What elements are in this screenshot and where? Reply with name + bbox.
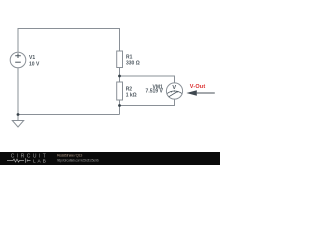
wire left vertical lower	[17, 68, 19, 115]
junction node at ground	[17, 113, 20, 116]
wire R1 to node A	[119, 68, 121, 83]
wire top horizontal	[18, 28, 120, 30]
node A (R1/R2 junction)	[118, 75, 121, 78]
svg-text:V-Out: V-Out	[190, 84, 206, 90]
svg-text:http://circuitlab.com/c5b2b25e: http://circuitlab.com/c5b2b25e96	[57, 158, 99, 162]
svg-text:10 V: 10 V	[29, 62, 40, 68]
wire node A to voltmeter top	[120, 76, 175, 83]
svg-text:LAB: LAB	[33, 158, 46, 164]
CircuitLab logo	[7, 153, 46, 164]
wire left vertical upper	[17, 28, 19, 52]
svg-text:1 kΩ: 1 kΩ	[126, 93, 137, 99]
wire node B to voltmeter bottom	[120, 99, 175, 105]
watermark bar	[0, 152, 220, 165]
wire R2 to node B	[119, 100, 121, 115]
svg-text:ResistShare / Q13: ResistShare / Q13	[57, 152, 83, 157]
resistor R2	[117, 82, 123, 100]
ground	[12, 115, 23, 128]
svg-text:V: V	[172, 85, 176, 91]
svg-text:330 Ω: 330 Ω	[126, 61, 140, 67]
wire right vertical to R1	[119, 28, 121, 51]
voltmeter VM1	[166, 83, 182, 99]
resistor R1	[117, 51, 123, 68]
wire bottom ground horizontal	[18, 114, 120, 116]
svg-text:7.519 V: 7.519 V	[146, 89, 164, 95]
svg-text:V1: V1	[29, 55, 35, 61]
voltage source V1	[10, 52, 26, 68]
node B (R2 bottom junction)	[118, 104, 121, 107]
flag arrow	[186, 90, 196, 95]
